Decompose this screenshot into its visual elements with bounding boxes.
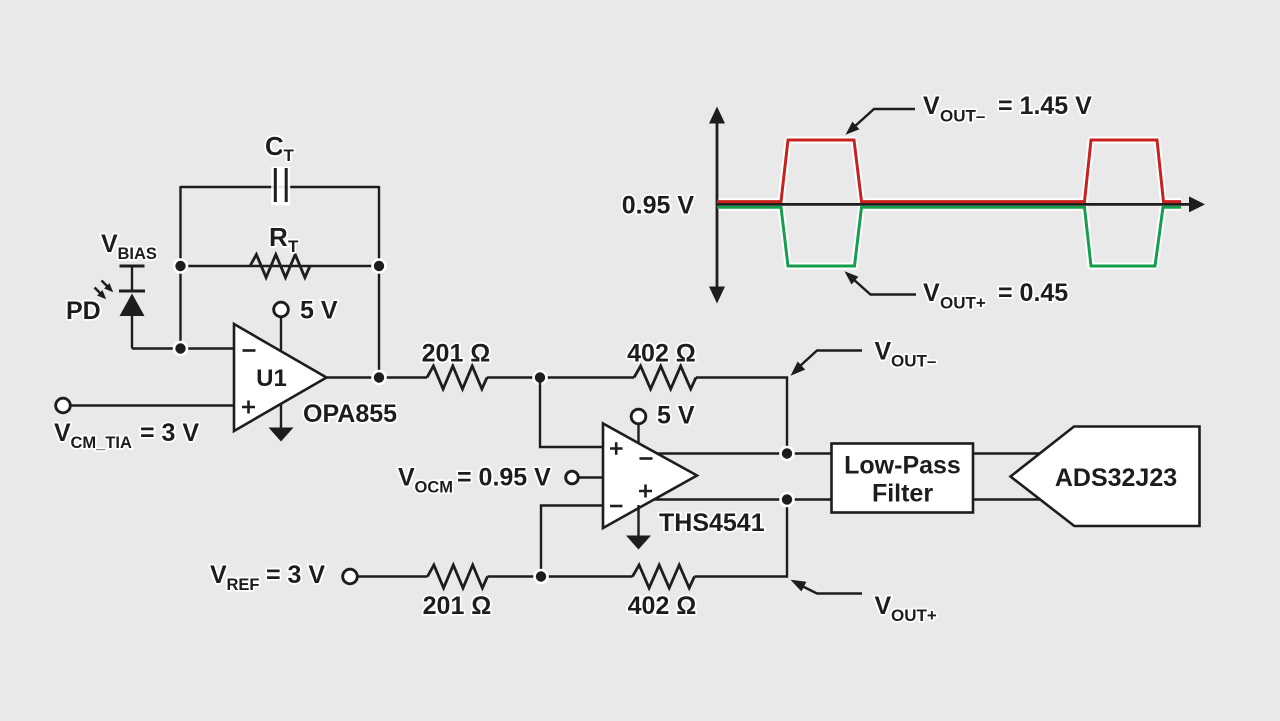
op-amp U1 bbox=[234, 324, 327, 431]
axis vertical bbox=[709, 107, 725, 304]
net arrow V_OUT- bbox=[791, 351, 863, 376]
svg-text:= 3 V: = 3 V bbox=[140, 419, 199, 447]
block ADS32J23 bbox=[1011, 427, 1200, 527]
svg-text:= 1.45 V: = 1.45 V bbox=[998, 92, 1092, 120]
svg-text:BIAS: BIAS bbox=[118, 245, 157, 263]
wire PD to inverting input bbox=[132, 347, 234, 349]
label V_OUT+ = 0.45 bbox=[923, 279, 1068, 313]
input terminal V_REF bbox=[356, 575, 428, 577]
node top summing bbox=[532, 370, 548, 386]
wire feedback left vertical bbox=[179, 186, 181, 349]
op-amp U2 THS4541 bbox=[603, 424, 697, 529]
callout arrow V_OUT- = 1.45 V bbox=[846, 109, 916, 135]
svg-text:OPA855: OPA855 bbox=[303, 400, 397, 428]
svg-text:THS4541: THS4541 bbox=[659, 509, 765, 537]
node V_OUT+ bbox=[779, 492, 795, 508]
capacitor C1 (C_T) bbox=[271, 167, 290, 206]
svg-text:= 0.95 V: = 0.95 V bbox=[457, 464, 551, 492]
resistor R5 402ohm bottom bbox=[633, 565, 695, 588]
node bottom summing bbox=[533, 569, 549, 585]
resistor R1 (R_T) bbox=[250, 255, 310, 278]
svg-text:OUT–: OUT– bbox=[891, 352, 936, 371]
label V_BIAS bbox=[101, 230, 157, 263]
wire feedback right vertical bbox=[378, 186, 380, 378]
svg-text:ADS32J23: ADS32J23 bbox=[1055, 464, 1177, 492]
terminal V_OCM bbox=[566, 471, 603, 484]
block Low-Pass Filter bbox=[832, 444, 974, 513]
waveform V_OUT+ green bbox=[717, 207, 1181, 266]
svg-text:PD: PD bbox=[66, 297, 101, 325]
svg-text:5 V: 5 V bbox=[657, 402, 695, 430]
svg-text:V: V bbox=[875, 592, 892, 620]
node feedback right bbox=[371, 258, 387, 274]
svg-text:0.95 V: 0.95 V bbox=[622, 192, 695, 220]
wire THS top output bbox=[640, 452, 831, 454]
svg-text:Low-Pass: Low-Pass bbox=[844, 452, 961, 480]
svg-text:OCM: OCM bbox=[415, 479, 454, 497]
svg-text:402 Ω: 402 Ω bbox=[628, 592, 697, 620]
svg-text:C: C bbox=[265, 131, 284, 161]
wire R_T row bbox=[181, 265, 380, 267]
wire U1 output bbox=[326, 376, 427, 378]
supply terminal V_BIAS bbox=[120, 266, 145, 290]
label V_OUT+ bbox=[875, 592, 937, 625]
svg-text:OUT+: OUT+ bbox=[940, 294, 986, 313]
svg-text:V: V bbox=[398, 464, 415, 492]
svg-text:V: V bbox=[923, 92, 940, 120]
waveform white casing green bbox=[717, 207, 1181, 266]
node feedback left bbox=[173, 258, 189, 274]
label V_CM_TIA = 3 V bbox=[54, 419, 199, 452]
label V_OUT- = 1.45 V bbox=[923, 92, 1092, 126]
svg-text:T: T bbox=[288, 237, 299, 256]
svg-text:CM_TIA: CM_TIA bbox=[71, 434, 133, 452]
svg-text:REF: REF bbox=[227, 576, 260, 594]
wire bottom row mid bbox=[488, 575, 633, 577]
wire bottom row right + corner up bbox=[695, 500, 788, 577]
label V_REF = 3 V bbox=[210, 561, 325, 594]
svg-text:OUT–: OUT– bbox=[940, 107, 985, 126]
svg-text:V: V bbox=[54, 419, 71, 447]
photodiode PD bbox=[119, 291, 145, 349]
wires filter to ADC bbox=[974, 454, 1055, 500]
svg-text:201 Ω: 201 Ω bbox=[422, 340, 491, 368]
svg-text:R: R bbox=[269, 222, 288, 252]
photodiode light arrows bbox=[95, 281, 114, 300]
resistor R2 201ohm top bbox=[427, 366, 487, 389]
svg-text:Filter: Filter bbox=[872, 480, 933, 508]
ground U1 bbox=[269, 403, 294, 442]
label R_T bbox=[269, 222, 299, 256]
node U1 output / feedback bbox=[371, 370, 387, 386]
wire to THS inverting input bbox=[541, 506, 603, 577]
wire top row right + corner down bbox=[696, 378, 787, 454]
svg-text:OUT+: OUT+ bbox=[891, 606, 937, 625]
svg-text:= 3 V: = 3 V bbox=[266, 561, 325, 589]
net arrow V_OUT+ bbox=[791, 580, 863, 594]
svg-text:V: V bbox=[210, 561, 227, 589]
wire THS bottom output bbox=[640, 498, 831, 500]
label V_OUT- bbox=[875, 338, 937, 371]
ground U2 bbox=[626, 505, 651, 550]
waveform white casing red bbox=[717, 140, 1181, 202]
svg-text:402 Ω: 402 Ω bbox=[627, 340, 696, 368]
wire feedback top bbox=[181, 186, 380, 188]
svg-text:5 V: 5 V bbox=[300, 297, 338, 325]
svg-text:V: V bbox=[923, 279, 940, 307]
waveform V_OUT- red bbox=[717, 140, 1181, 202]
node inverting input junction bbox=[173, 341, 189, 357]
label C_T bbox=[265, 131, 295, 165]
resistor R4 201ohm bottom bbox=[428, 565, 488, 588]
resistor R3 402ohm top bbox=[634, 366, 696, 389]
5V supply terminal U2 bbox=[631, 402, 695, 445]
node V_OUT- bbox=[779, 446, 795, 462]
5V supply terminal U1 bbox=[274, 297, 338, 351]
svg-text:V: V bbox=[101, 230, 118, 258]
svg-text:201 Ω: 201 Ω bbox=[423, 592, 492, 620]
svg-text:= 0.45: = 0.45 bbox=[998, 279, 1068, 307]
wire top row mid bbox=[487, 376, 634, 378]
svg-text:T: T bbox=[284, 146, 295, 165]
label V_OCM = 0.95 V bbox=[398, 464, 551, 497]
wire to THS noninverting input bbox=[540, 378, 603, 448]
axis horizontal bbox=[717, 196, 1205, 212]
callout arrow V_OUT+ = 0.45 bbox=[845, 271, 917, 294]
svg-text:U1: U1 bbox=[256, 365, 287, 392]
input terminal V_CM_TIA bbox=[69, 404, 234, 406]
svg-text:V: V bbox=[875, 338, 892, 366]
